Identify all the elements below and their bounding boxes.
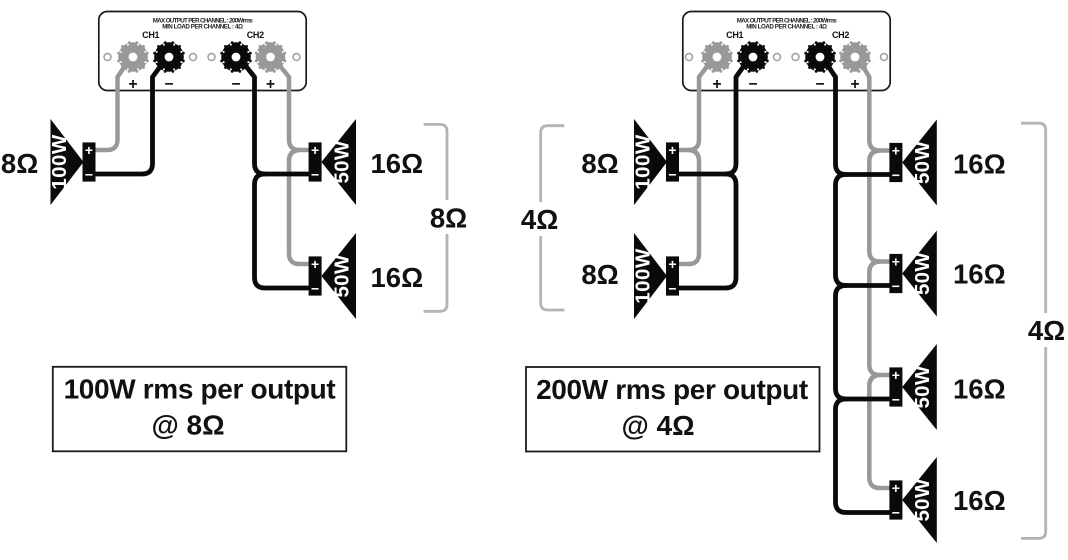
speaker SP6 50W (right chain 1, 16 ohm) xyxy=(889,120,936,206)
svg-text:16Ω: 16Ω xyxy=(953,149,1006,180)
wire B CH1+ gray link SP4 to SP5 xyxy=(678,150,699,264)
panel B binding post CH2- (black) xyxy=(804,41,836,73)
svg-text:CH1: CH1 xyxy=(726,30,743,40)
panel A binding post CH2- (black) xyxy=(220,41,252,73)
wire B CH2+ gray link SP6 to SP7 xyxy=(869,151,890,262)
svg-text:8Ω: 8Ω xyxy=(581,259,618,290)
panel B washer w4 xyxy=(881,54,888,61)
amplifier panel B faceplate xyxy=(683,12,890,91)
panel B binding post CH1+ (gray) xyxy=(701,41,733,73)
svg-text:+: + xyxy=(128,76,137,93)
wire B CH2+ gray link SP7 to SP8 xyxy=(869,262,890,376)
left bracket label background xyxy=(520,202,560,236)
panel A washer w1 xyxy=(104,54,111,61)
svg-text:CH2: CH2 xyxy=(832,30,849,40)
speaker SP1 100W (left, 8 ohm) xyxy=(48,119,96,205)
svg-text:@ 4Ω: @ 4Ω xyxy=(621,410,694,441)
speaker SP3 50W (bottom right, 16 ohm) xyxy=(309,233,356,319)
caption box B xyxy=(526,367,820,452)
svg-text:+: + xyxy=(712,76,721,93)
wire CH2- black to speaker SP2 xyxy=(241,60,308,174)
speaker SP5 100W (bottom left, 8 ohm) xyxy=(632,233,680,319)
wire B CH1- black link SP4 to SP5 xyxy=(678,174,736,288)
svg-text:CH1: CH1 xyxy=(142,30,159,40)
wire B CH2+ gray link SP8 to SP9 xyxy=(869,375,890,488)
wire B CH2- black link SP7 to SP8 xyxy=(836,286,891,400)
svg-text:16Ω: 16Ω xyxy=(371,262,424,293)
panel A binding post CH1- (black) xyxy=(153,41,185,73)
svg-text:CH2: CH2 xyxy=(247,30,264,40)
panel A washer w4 xyxy=(293,54,300,61)
bracket 4 ohm total (right chain) xyxy=(1021,123,1046,538)
bracket 8 ohm total (SP2+SP3) xyxy=(424,124,447,311)
svg-text:4Ω: 4Ω xyxy=(1028,315,1065,346)
speaker SP7 50W (right chain 2, 16 ohm) xyxy=(889,231,936,317)
svg-text:MIN LOAD PER CHANNEL : 4Ω: MIN LOAD PER CHANNEL : 4Ω xyxy=(746,24,827,31)
bracket 4 ohm total (SP4+SP5) xyxy=(541,126,565,310)
svg-text:16Ω: 16Ω xyxy=(953,259,1006,290)
wire CH1+ gray to speaker SP1 xyxy=(94,60,129,150)
right bracket label background xyxy=(1027,313,1067,347)
caption box A xyxy=(53,367,347,452)
speaker SP2 50W (top right, 16 ohm) xyxy=(309,119,356,205)
panel A binding post CH1+ (gray) xyxy=(117,41,149,73)
wire CH2+ gray to speaker SP2 xyxy=(275,60,308,150)
speaker SP4 100W (top left, 8 ohm) xyxy=(632,119,680,205)
bracket label background xyxy=(429,200,467,234)
svg-text:+: + xyxy=(850,76,859,93)
panel A binding post CH2+ (gray) xyxy=(255,41,287,73)
wire B CH1- black to speaker SP4 xyxy=(678,60,748,174)
svg-text:MIN LOAD PER CHANNEL : 4Ω: MIN LOAD PER CHANNEL : 4Ω xyxy=(162,24,243,31)
svg-text:−: − xyxy=(748,76,757,93)
panel B washer w2 xyxy=(774,54,781,61)
svg-text:8Ω: 8Ω xyxy=(1,148,38,179)
wire B CH2- black link SP6 to SP7 xyxy=(836,175,891,286)
panel B washer w3 xyxy=(792,54,799,61)
wire CH1- black to speaker SP1 xyxy=(94,60,165,174)
wire B CH1+ gray to speaker SP4 xyxy=(678,60,712,150)
panel B washer w1 xyxy=(686,54,693,61)
svg-text:−: − xyxy=(164,76,173,93)
panel A washer w3 xyxy=(208,54,215,61)
panel B binding post CH1- (black) xyxy=(737,41,769,73)
svg-text:16Ω: 16Ω xyxy=(953,485,1006,516)
wire B CH2- black link SP8 to SP9 xyxy=(836,399,891,513)
wire CH2- black link SP2 to SP3 xyxy=(255,174,309,288)
svg-text:200W rms per output: 200W rms per output xyxy=(536,374,808,405)
panel B binding post CH2+ (gray) xyxy=(839,41,871,73)
svg-text:−: − xyxy=(815,76,824,93)
svg-text:8Ω: 8Ω xyxy=(581,148,618,179)
svg-text:16Ω: 16Ω xyxy=(953,374,1006,405)
speaker SP9 50W (right chain 4, 16 ohm) xyxy=(889,457,936,543)
amplifier panel A faceplate xyxy=(99,12,306,91)
svg-text:16Ω: 16Ω xyxy=(371,148,424,179)
speaker SP8 50W (right chain 3, 16 ohm) xyxy=(889,344,936,430)
svg-text:100W rms per output: 100W rms per output xyxy=(64,373,336,404)
svg-text:−: − xyxy=(231,76,240,93)
wire B CH2- black to speaker SP6 xyxy=(824,60,890,175)
svg-text:4Ω: 4Ω xyxy=(521,204,558,235)
svg-text:+: + xyxy=(266,76,275,93)
wire B CH2+ gray to speaker SP6 xyxy=(859,60,890,151)
wire CH2+ gray link SP2 to SP3 xyxy=(289,150,308,264)
svg-text:8Ω: 8Ω xyxy=(430,203,467,234)
panel A washer w2 xyxy=(190,54,197,61)
svg-text:@ 8Ω: @ 8Ω xyxy=(151,409,224,440)
